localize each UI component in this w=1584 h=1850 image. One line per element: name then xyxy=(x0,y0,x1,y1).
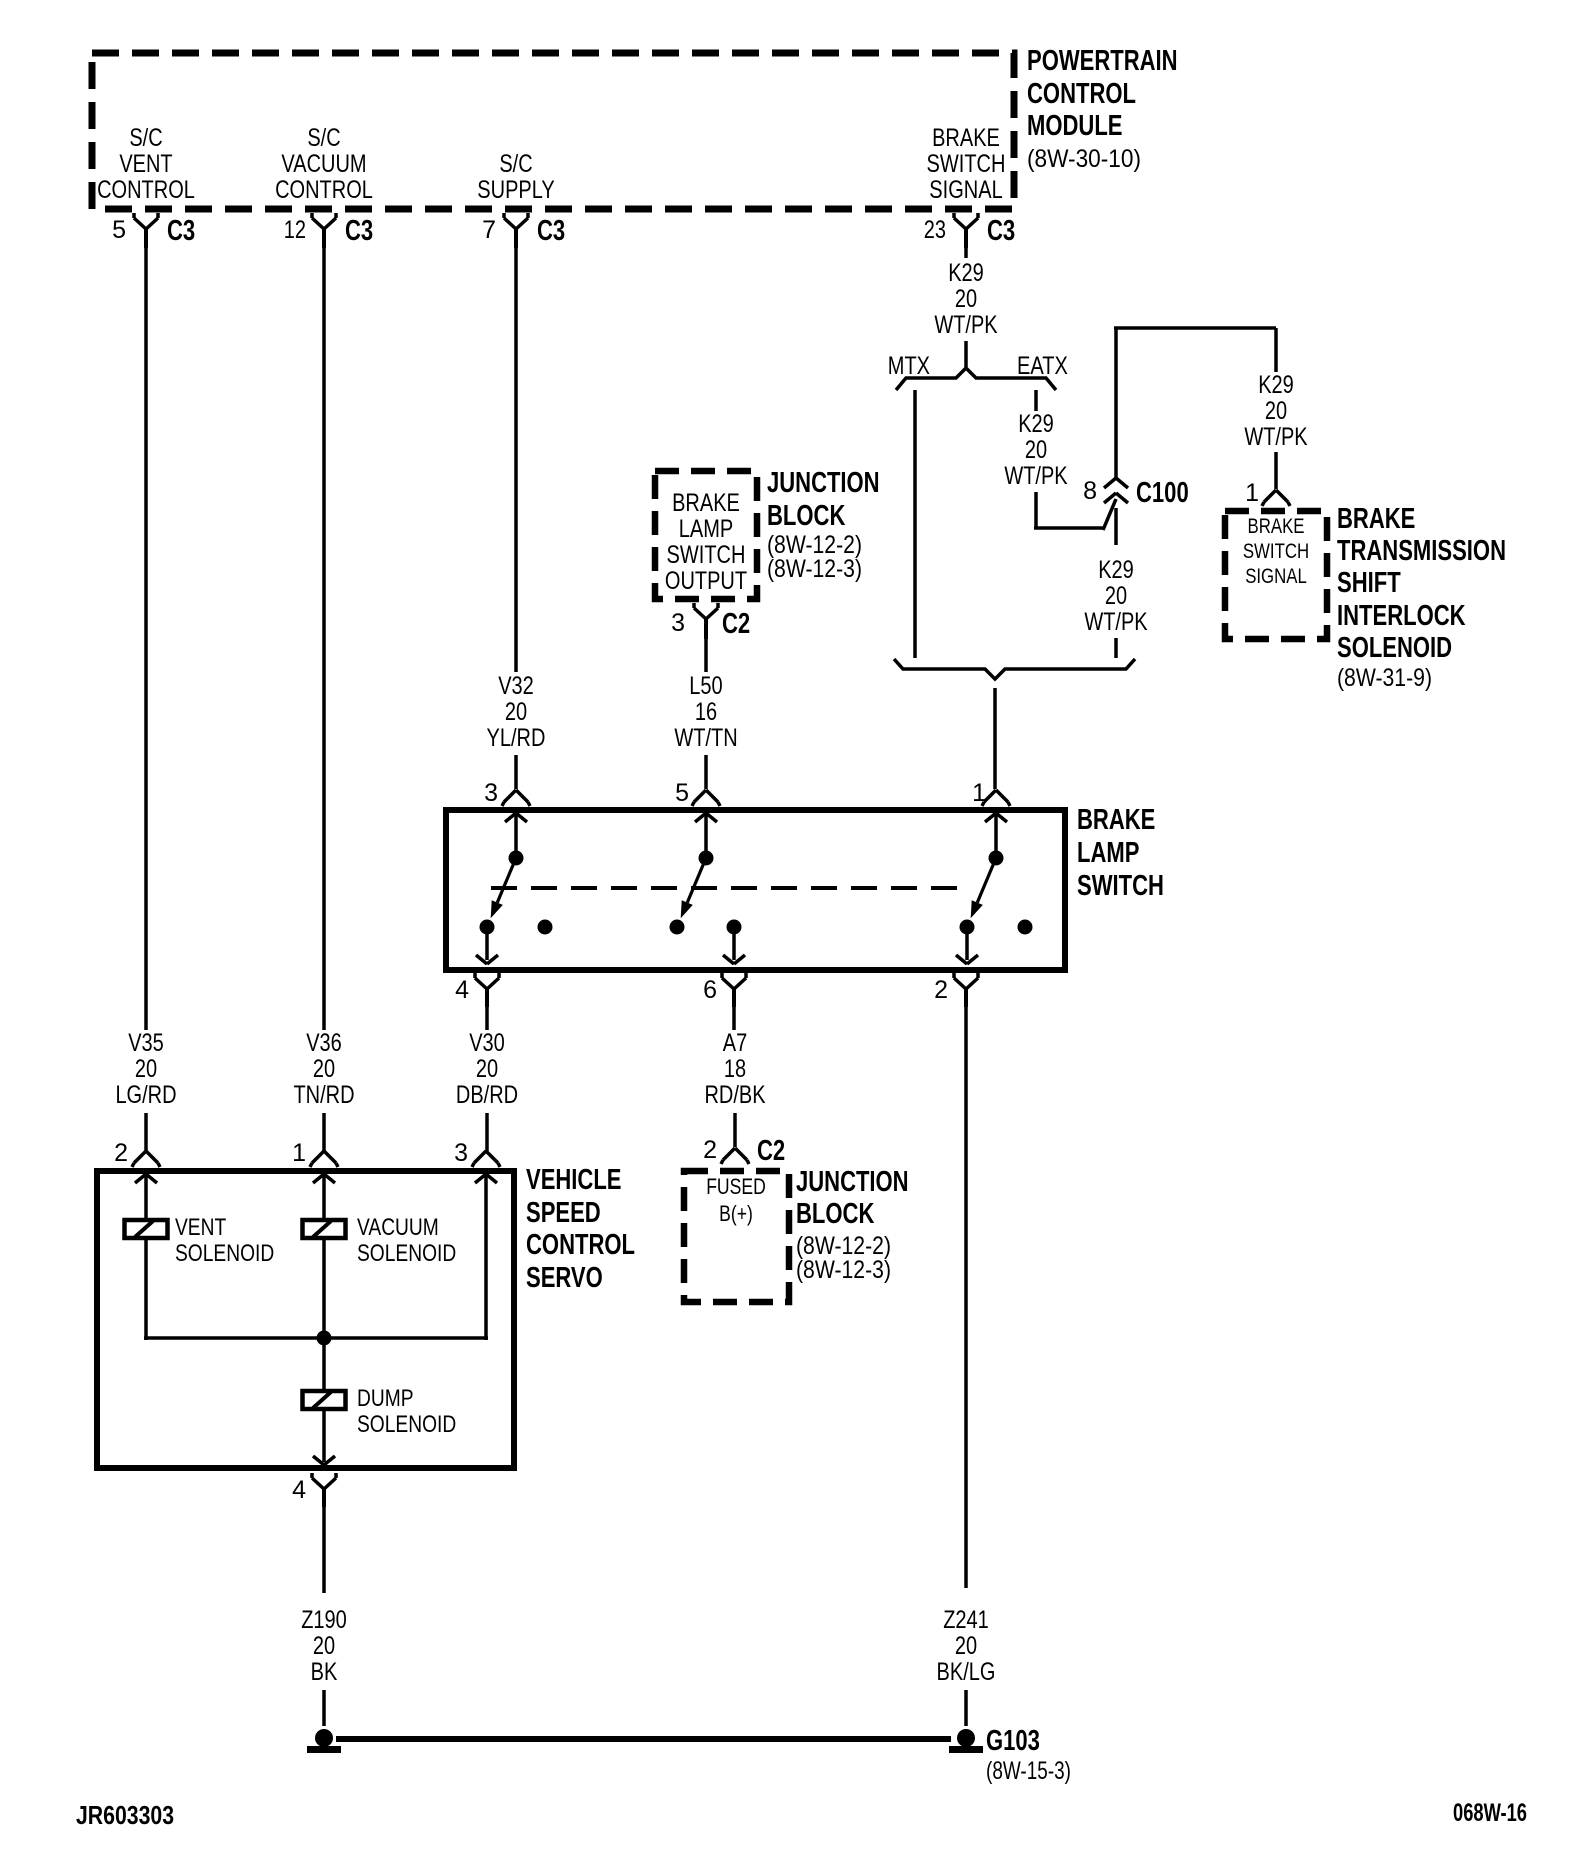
ground G103 right symbol xyxy=(957,1729,975,1747)
wire V35 from PCM pin 5 to servo pin 2 xyxy=(144,248,148,1030)
wire V36 lower segment xyxy=(322,1113,326,1151)
switch pole 3-4 output stub xyxy=(485,927,489,960)
pin 1 entry arrow xyxy=(985,813,996,822)
wire from merge bracket to brake lamp switch pin 1 xyxy=(993,688,997,789)
pin 3 entry arrow xyxy=(505,813,516,822)
wire BTSI branch lower xyxy=(1274,452,1278,489)
svg-text:(8W-31-9): (8W-31-9) xyxy=(1337,664,1432,692)
svg-text:C3: C3 xyxy=(167,215,195,247)
svg-text:MODULE: MODULE xyxy=(1027,110,1123,142)
svg-text:(8W-15-3): (8W-15-3) xyxy=(986,1757,1071,1785)
connector C100 (double chevron) xyxy=(1104,478,1116,488)
svg-text:BRAKE: BRAKE xyxy=(1337,503,1415,535)
svg-text:EATX: EATX xyxy=(1017,352,1068,380)
switch pole 5-6 contact dot xyxy=(670,920,685,935)
svg-text:VENT: VENT xyxy=(119,150,172,178)
svg-text:SHIFT: SHIFT xyxy=(1337,567,1401,599)
svg-text:C3: C3 xyxy=(345,215,373,247)
svg-text:K29: K29 xyxy=(948,259,984,287)
switch pole 3-4 spare contact dot xyxy=(538,920,553,935)
svg-text:LAMP: LAMP xyxy=(679,515,734,543)
switch pole 3-4 lower contact dot xyxy=(480,920,495,935)
svg-text:JR603303: JR603303 xyxy=(76,1800,174,1830)
svg-text:FUSED: FUSED xyxy=(706,1174,766,1199)
svg-text:SIGNAL: SIGNAL xyxy=(929,176,1002,204)
svg-text:SWITCH: SWITCH xyxy=(667,541,746,569)
svg-text:CONTROL: CONTROL xyxy=(97,176,195,204)
svg-text:3: 3 xyxy=(671,609,685,637)
svg-text:SWITCH: SWITCH xyxy=(927,150,1006,178)
wire Z241 lower xyxy=(964,1690,968,1726)
svg-text:7: 7 xyxy=(482,216,496,244)
svg-text:(8W-30-10): (8W-30-10) xyxy=(1027,145,1141,173)
wire MTX branch xyxy=(913,390,917,658)
svg-text:BLOCK: BLOCK xyxy=(767,500,845,532)
svg-text:K29: K29 xyxy=(1098,556,1134,584)
wire V32 lower segment xyxy=(514,755,518,789)
svg-text:SWITCH: SWITCH xyxy=(1077,870,1164,902)
vacuum solenoid lower wire xyxy=(322,1238,326,1338)
svg-text:WT/PK: WT/PK xyxy=(1004,462,1068,490)
dump solenoid lower wire xyxy=(322,1409,326,1462)
svg-text:DUMP: DUMP xyxy=(357,1385,414,1412)
svg-text:INTERLOCK: INTERLOCK xyxy=(1337,600,1466,632)
svg-text:V32: V32 xyxy=(498,672,534,700)
svg-text:LAMP: LAMP xyxy=(1077,837,1139,869)
svg-text:Z241: Z241 xyxy=(943,1606,989,1634)
svg-text:C100: C100 xyxy=(1136,477,1189,509)
svg-text:1: 1 xyxy=(1245,479,1259,507)
wire Z241 upper xyxy=(964,1007,968,1588)
svg-text:V35: V35 xyxy=(128,1029,164,1057)
wire V36 from PCM pin 12 to servo pin 1 xyxy=(322,248,326,1030)
svg-text:WT/TN: WT/TN xyxy=(674,724,737,752)
svg-text:POWERTRAIN: POWERTRAIN xyxy=(1027,45,1178,77)
svg-text:L50: L50 xyxy=(689,672,722,700)
svg-text:2: 2 xyxy=(934,976,948,1004)
switch internal dashed line xyxy=(491,886,971,890)
svg-text:SWITCH: SWITCH xyxy=(1243,540,1309,563)
svg-text:1: 1 xyxy=(292,1139,306,1167)
MTX/EATX split bracket xyxy=(896,368,1056,390)
ground bus wire xyxy=(336,1736,951,1742)
svg-text:BK: BK xyxy=(311,1658,338,1686)
switch pole 5-6 output stub xyxy=(732,927,736,960)
svg-text:BRAKE: BRAKE xyxy=(672,489,740,517)
svg-text:BRAKE: BRAKE xyxy=(932,124,1000,152)
svg-text:4: 4 xyxy=(292,1476,306,1504)
svg-text:CONTROL: CONTROL xyxy=(1027,78,1136,110)
svg-text:20: 20 xyxy=(135,1055,157,1083)
svg-text:Z190: Z190 xyxy=(301,1606,347,1634)
vent solenoid lower wire xyxy=(144,1238,148,1340)
svg-text:20: 20 xyxy=(313,1632,335,1660)
svg-text:RD/BK: RD/BK xyxy=(704,1081,765,1109)
ground G103 left symbol xyxy=(315,1729,333,1747)
vacuum solenoid xyxy=(303,1220,346,1238)
svg-text:WT/PK: WT/PK xyxy=(934,311,998,339)
wire top horizontal to BTSI branch xyxy=(1114,326,1276,330)
wire L50 lower segment xyxy=(704,755,708,789)
svg-text:S/C: S/C xyxy=(129,124,162,152)
svg-text:20: 20 xyxy=(505,698,527,726)
svg-text:BRAKE: BRAKE xyxy=(1077,804,1155,836)
brake transmission shift interlock solenoid box (dashed) xyxy=(1225,511,1327,639)
svg-text:20: 20 xyxy=(955,285,977,313)
svg-text:VACUUM: VACUUM xyxy=(281,150,366,178)
svg-text:WT/PK: WT/PK xyxy=(1244,423,1308,451)
svg-text:20: 20 xyxy=(1105,582,1127,610)
servo pin 3 internal wire xyxy=(484,1176,488,1340)
svg-text:068W-16: 068W-16 xyxy=(1453,1799,1527,1827)
svg-text:20: 20 xyxy=(313,1055,335,1083)
svg-text:20: 20 xyxy=(476,1055,498,1083)
switch pole 1-2 lower contact dot xyxy=(960,920,975,935)
svg-text:20: 20 xyxy=(1265,397,1287,425)
svg-text:3: 3 xyxy=(484,779,498,807)
wire V32 from PCM pin 7 to brake lamp switch pin 3 xyxy=(514,248,518,672)
switch pole 5-6 output dot xyxy=(727,920,742,935)
wire A7 lower segment xyxy=(733,1113,737,1147)
servo pin 2 entry arrow xyxy=(135,1174,146,1183)
svg-text:LG/RD: LG/RD xyxy=(115,1081,176,1109)
svg-text:VEHICLE: VEHICLE xyxy=(526,1164,622,1196)
svg-text:6: 6 xyxy=(703,976,717,1004)
svg-text:BRAKE: BRAKE xyxy=(1248,515,1305,538)
svg-text:VACUUM: VACUUM xyxy=(357,1214,439,1241)
wire EATX branch to C100 xyxy=(1034,492,1038,528)
svg-text:23: 23 xyxy=(924,216,946,244)
svg-text:S/C: S/C xyxy=(499,150,532,178)
switch pole 3-4: stub, pivot dot, blade arrow xyxy=(514,812,518,858)
svg-text:SERVO: SERVO xyxy=(526,1262,603,1294)
svg-text:WT/PK: WT/PK xyxy=(1084,608,1148,636)
switch pole 5-6: stub, pivot dot, blade arrow xyxy=(704,812,708,858)
svg-text:3: 3 xyxy=(454,1139,468,1167)
svg-text:C2: C2 xyxy=(722,608,750,640)
vacuum solenoid wire stub xyxy=(322,1176,326,1220)
svg-text:V36: V36 xyxy=(306,1029,342,1057)
wire Z190 upper xyxy=(322,1507,326,1593)
wire K29 to merge bracket xyxy=(1114,638,1118,658)
svg-text:JUNCTION: JUNCTION xyxy=(796,1166,909,1198)
svg-text:CONTROL: CONTROL xyxy=(275,176,373,204)
svg-text:C2: C2 xyxy=(757,1135,785,1167)
svg-text:20: 20 xyxy=(1025,436,1047,464)
svg-text:SUPPLY: SUPPLY xyxy=(477,176,555,204)
svg-text:12: 12 xyxy=(284,216,306,244)
svg-text:SOLENOID: SOLENOID xyxy=(1337,632,1452,664)
servo pin 1 entry arrow xyxy=(313,1174,324,1183)
svg-text:B(+): B(+) xyxy=(719,1201,753,1226)
fused B(+) junction block box (dashed) xyxy=(684,1171,789,1302)
wire Z190 lower xyxy=(322,1690,326,1726)
svg-text:5: 5 xyxy=(112,216,126,244)
svg-text:2: 2 xyxy=(114,1139,128,1167)
wire V30 upper xyxy=(485,1007,489,1030)
servo internal bus wire xyxy=(144,1336,488,1340)
svg-text:CONTROL: CONTROL xyxy=(526,1229,635,1261)
switch pole 1-2 spare contact dot xyxy=(1018,920,1033,935)
wire V35 lower segment xyxy=(144,1113,148,1151)
svg-text:SIGNAL: SIGNAL xyxy=(1245,565,1307,588)
svg-text:8: 8 xyxy=(1083,477,1097,505)
wire K29 below C100 xyxy=(1114,508,1118,545)
svg-text:A7: A7 xyxy=(723,1029,748,1057)
wire L50 from JB1 to brake lamp switch pin 5 xyxy=(704,639,708,672)
svg-text:C3: C3 xyxy=(537,215,565,247)
svg-text:K29: K29 xyxy=(1018,410,1054,438)
svg-text:OUTPUT: OUTPUT xyxy=(665,567,747,595)
svg-text:VENT: VENT xyxy=(175,1214,226,1241)
vent solenoid wire stub xyxy=(144,1176,148,1220)
MTX/EATX merge bracket xyxy=(894,659,1135,679)
dump solenoid xyxy=(303,1391,346,1409)
wire EATX branch upper xyxy=(1034,390,1038,411)
svg-text:20: 20 xyxy=(955,1632,977,1660)
pin 5 entry arrow xyxy=(695,813,706,822)
svg-text:16: 16 xyxy=(695,698,717,726)
wire A7 upper xyxy=(732,1007,736,1030)
wire BTSI branch upper xyxy=(1274,328,1278,372)
svg-text:V30: V30 xyxy=(469,1029,505,1057)
junction block 1 box (dashed) xyxy=(655,471,757,599)
svg-text:TN/RD: TN/RD xyxy=(293,1081,354,1109)
wire K29 from PCM pin 23 xyxy=(964,248,968,258)
vehicle speed control servo box xyxy=(97,1171,514,1468)
svg-text:C3: C3 xyxy=(987,215,1015,247)
svg-text:18: 18 xyxy=(724,1055,746,1083)
vent solenoid xyxy=(125,1220,168,1238)
dump solenoid wire stub xyxy=(322,1338,326,1391)
svg-text:SOLENOID: SOLENOID xyxy=(357,1411,456,1438)
svg-text:(8W-12-3): (8W-12-3) xyxy=(796,1256,891,1284)
servo internal junction dot xyxy=(317,1331,332,1346)
svg-text:2: 2 xyxy=(703,1136,717,1164)
switch pole 1-2 output stub xyxy=(965,927,969,960)
svg-text:MTX: MTX xyxy=(888,352,930,380)
svg-text:JUNCTION: JUNCTION xyxy=(767,467,880,499)
svg-text:BLOCK: BLOCK xyxy=(796,1198,874,1230)
svg-text:SOLENOID: SOLENOID xyxy=(175,1240,274,1267)
svg-text:G103: G103 xyxy=(986,1725,1040,1757)
svg-text:YL/RD: YL/RD xyxy=(487,724,546,752)
svg-text:BK/LG: BK/LG xyxy=(937,1658,996,1686)
svg-text:TRANSMISSION: TRANSMISSION xyxy=(1337,535,1506,567)
svg-text:4: 4 xyxy=(455,976,469,1004)
wire V30 lower segment xyxy=(485,1113,489,1151)
svg-text:5: 5 xyxy=(675,779,689,807)
svg-text:SPEED: SPEED xyxy=(526,1197,601,1229)
svg-text:DB/RD: DB/RD xyxy=(456,1081,518,1109)
svg-text:S/C: S/C xyxy=(307,124,340,152)
wire K29 segment to MTX/EATX split xyxy=(964,341,968,367)
svg-text:(8W-12-3): (8W-12-3) xyxy=(767,555,862,583)
brake lamp switch box xyxy=(446,810,1065,970)
servo pin 3 entry arrow xyxy=(475,1174,486,1183)
svg-text:SOLENOID: SOLENOID xyxy=(357,1240,456,1267)
wire from C100 up to top corner xyxy=(1114,328,1118,478)
powertrain control module PCM box (dashed) xyxy=(92,53,1014,209)
svg-text:K29: K29 xyxy=(1258,371,1294,399)
switch pole 1-2: stub, pivot dot, blade arrow xyxy=(994,812,998,858)
